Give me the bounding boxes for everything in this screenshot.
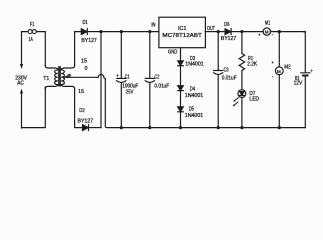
node C3 bottom [217, 126, 220, 129]
battery B1 12V [301, 72, 310, 74]
wire secondary top to D1 [75, 32, 81, 66]
svg-text:1N4001: 1N4001 [185, 61, 204, 67]
node R1 top [240, 30, 243, 33]
svg-text:0.01uF: 0.01uF [154, 83, 169, 89]
wire top rail to regulator [101, 31, 159, 33]
wire secondary bottom to D2 [75, 89, 82, 128]
diode D2 BY127 [83, 125, 89, 131]
diode D3 1N4001 [178, 61, 184, 66]
diode D6 BY127 [218, 31, 225, 33]
svg-text:C3: C3 [224, 68, 229, 74]
wire LED to bottom rail [241, 98, 243, 128]
node D5 bottom [179, 126, 182, 129]
transformer T1 [45, 66, 58, 70]
svg-text:IN: IN [151, 22, 155, 28]
svg-text:LED: LED [249, 97, 259, 103]
node C2 top [148, 30, 151, 33]
node M2 bottom [278, 126, 281, 129]
wire primary bottom to AC bottom [22, 87, 46, 128]
node rectifier output [99, 30, 102, 33]
svg-text:1A: 1A [29, 37, 34, 43]
AC source 230V AC terminals [20, 64, 23, 94]
svg-text:D5: D5 [189, 107, 194, 113]
capacitor C3 0.01uF [217, 32, 219, 71]
svg-text:GND: GND [168, 50, 177, 56]
svg-text:C2: C2 [154, 74, 159, 80]
capacitor C2 0.01uF [149, 32, 151, 78]
diode D4 1N4001 [178, 86, 184, 91]
svg-text:1000uF: 1000uF [122, 83, 138, 89]
node C1 bottom [120, 126, 123, 129]
svg-text:15: 15 [81, 59, 87, 65]
node C1 top [120, 30, 123, 33]
svg-text:-: - [272, 74, 274, 79]
svg-text:D1: D1 [83, 20, 88, 26]
wire bottom rail [121, 127, 305, 129]
capacitor C1 1000uF 25V [120, 32, 122, 78]
node LED bottom [240, 126, 243, 129]
svg-text:12V: 12V [294, 81, 303, 87]
svg-text:0: 0 [85, 66, 88, 72]
node C3 top [217, 30, 220, 33]
svg-text:+: + [258, 32, 261, 37]
fuse F1 [28, 30, 32, 34]
svg-text:2.2K: 2.2K [247, 61, 257, 67]
node C2 bottom [148, 126, 151, 129]
diode D1 BY127 [81, 29, 87, 35]
svg-text:D2: D2 [79, 108, 84, 114]
svg-text:+: + [271, 60, 274, 65]
node M2 top [278, 30, 281, 33]
svg-text:IC1: IC1 [178, 26, 187, 32]
svg-text:D6: D6 [224, 22, 229, 28]
transformer centre-tap lead [64, 74, 70, 77]
diode D5 1N4001 [178, 107, 184, 112]
svg-text:+: + [310, 69, 313, 74]
svg-text:BY127: BY127 [78, 119, 94, 125]
wire regulator GND down [180, 48, 182, 61]
svg-text:C1: C1 [125, 74, 130, 80]
svg-text:0.01uF: 0.01uF [222, 76, 237, 82]
wire fuse to primary top [36, 32, 45, 66]
svg-text:M2: M2 [284, 64, 290, 70]
svg-text:15: 15 [78, 89, 84, 95]
wire top-left from AC to fuse [22, 32, 29, 65]
svg-text:F1: F1 [30, 22, 34, 28]
svg-text:25V: 25V [126, 90, 134, 96]
svg-text:-: - [272, 32, 274, 37]
wire rectifier join vertical [100, 32, 102, 128]
wire top rail right corner down [304, 32, 305, 73]
motor M2 [278, 32, 280, 67]
resistor R1 2.2K [239, 32, 244, 90]
svg-text:M1: M1 [265, 21, 270, 27]
motor M1 [242, 31, 263, 33]
LED D7 [238, 90, 246, 98]
svg-text:1N4001: 1N4001 [185, 93, 204, 99]
svg-text:BY127: BY127 [81, 38, 97, 44]
svg-text:MC78T12ABT: MC78T12ABT [162, 33, 202, 39]
wire regulator OUT [205, 31, 218, 33]
regulator IC1 MC78T12ABT [159, 17, 206, 48]
svg-text:1N4001: 1N4001 [185, 113, 204, 119]
svg-text:M: M [265, 30, 269, 35]
wire centre tap with hop over rectifier join [65, 74, 121, 127]
svg-text:D4: D4 [190, 86, 195, 92]
svg-text:BY127: BY127 [221, 36, 237, 42]
svg-text:AC: AC [17, 80, 24, 86]
svg-text:M: M [277, 69, 281, 74]
svg-text:T1: T1 [43, 76, 49, 82]
svg-text:+: + [116, 73, 119, 78]
